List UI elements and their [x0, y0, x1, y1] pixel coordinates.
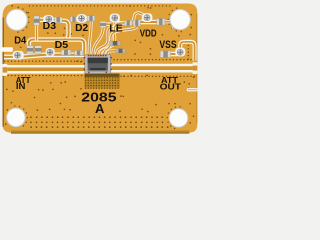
svg-text:D3: D3: [43, 21, 57, 32]
svg-text:D2: D2: [75, 23, 89, 34]
svg-text:VSS: VSS: [159, 39, 177, 51]
svg-text:D5: D5: [55, 40, 69, 51]
svg-text:OUT: OUT: [160, 82, 182, 92]
svg-text:D4: D4: [14, 35, 26, 46]
svg-text:LE: LE: [109, 24, 123, 35]
svg-text:A: A: [95, 101, 105, 116]
svg-text:VDD: VDD: [140, 27, 157, 39]
svg-text:IN: IN: [16, 81, 26, 91]
